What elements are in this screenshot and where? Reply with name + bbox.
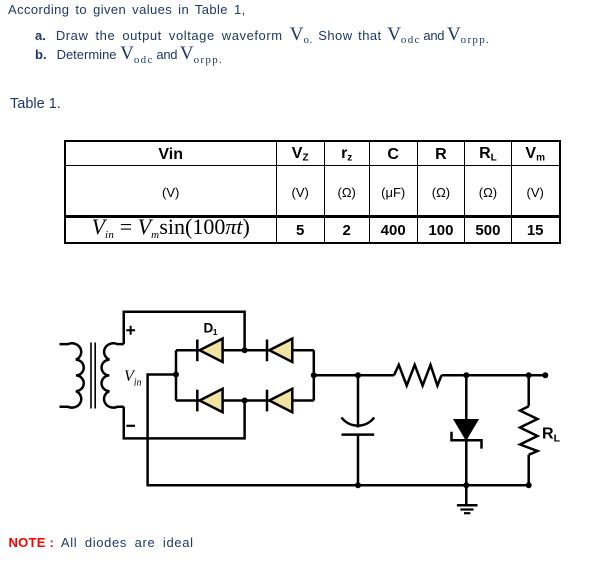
wire: bridge top branch [176,349,314,352]
Table 1 caption [10,96,61,112]
wire: secondary bottom to bridge bottom node [124,401,245,439]
node: zener bottom [463,482,469,488]
wire: bridge left vertical [175,350,178,400]
resistor RL [520,375,538,485]
wire: output node to load (left part) [314,374,394,377]
node: RL top [526,372,532,378]
wire: AC node A to ground rail (bottom rail) [148,375,529,486]
units row [65,166,277,217]
svg-text:D1: D1 [204,321,218,338]
item a [35,24,490,46]
diode D1 [197,339,222,362]
transformer T1 primary winding [60,343,84,407]
diode D2 (top right) [267,339,292,362]
node: bridge bottom junction [242,398,248,404]
label - (secondary bottom polarity) [126,425,135,427]
wire: bridge bottom branch [176,399,314,402]
wire: bridge right vertical [313,350,316,400]
wire: secondary top to bridge top node [124,312,245,351]
ground [457,505,478,513]
transformer T1 secondary winding [102,343,124,407]
resistor R [394,365,442,386]
wire: resistor right to terminal [442,374,545,377]
node: capacitor top [355,372,361,378]
diode D4 (bottom right) [267,389,292,412]
node: capacitor bottom [355,482,361,488]
table [64,140,561,245]
node: zener top [463,372,469,378]
node: RL bottom [526,482,532,488]
node: AC input left (A) [173,372,179,378]
node: bridge top junction [242,347,248,353]
label + (secondary top polarity) [126,326,135,335]
svg-text:Vin: Vin [124,368,142,389]
capacitor C [342,375,375,485]
node: output terminal [542,372,548,378]
item b [35,43,223,65]
zener diode DZ [452,375,482,505]
NOTE line [9,535,194,550]
line 1 [8,2,246,17]
svg-text:RL: RL [542,425,561,444]
diode D3 (bottom left) [197,389,222,412]
transformer T1 core [91,343,95,409]
node: DC output right (B) [311,372,317,378]
